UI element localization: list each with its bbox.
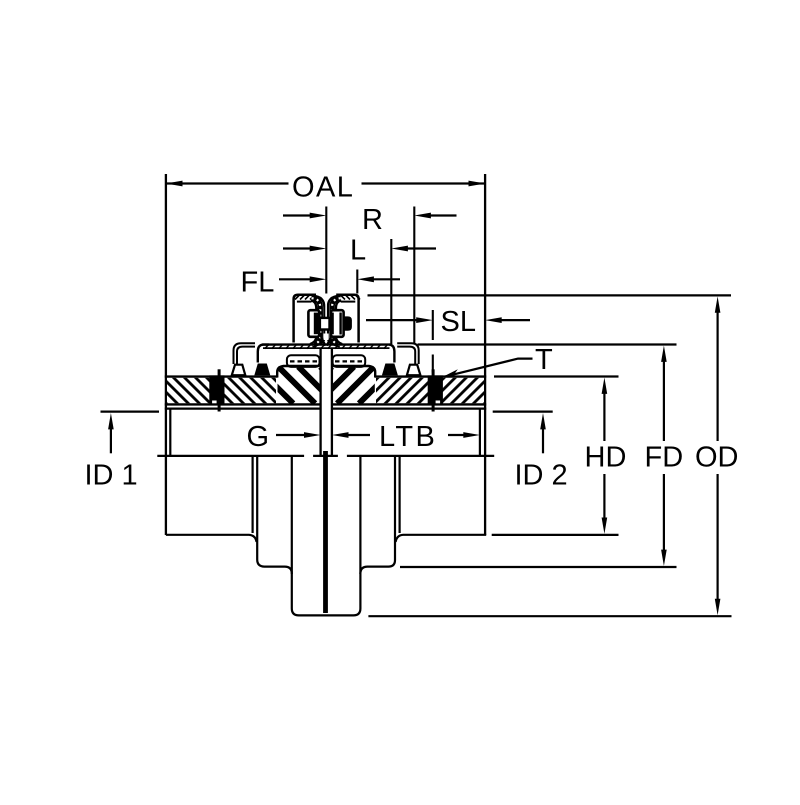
R right reference line bbox=[413, 207, 415, 345]
center gap sliver bbox=[325, 296, 327, 345]
hub flange bottom line bbox=[165, 403, 486, 405]
hub barrel left wall inner bbox=[169, 409, 171, 456]
dimension LTB bbox=[332, 421, 480, 453]
leader T bbox=[442, 344, 553, 377]
svg-text:R: R bbox=[362, 204, 383, 236]
cover right edge foot (black) bbox=[382, 364, 398, 376]
OD top extension line bbox=[368, 294, 732, 296]
cover bottom band bbox=[258, 345, 395, 363]
cover left edge foot (black) bbox=[254, 364, 270, 376]
svg-text:G: G bbox=[247, 421, 270, 453]
dimension SL bbox=[366, 306, 530, 338]
SL left reference line bbox=[432, 310, 434, 373]
svg-text:ID 1: ID 1 bbox=[85, 460, 138, 492]
ID 1 arrow bbox=[85, 413, 138, 492]
dimension OAL bbox=[166, 172, 485, 204]
FD top extension line bbox=[418, 343, 677, 345]
svg-text:OAL: OAL bbox=[292, 172, 354, 204]
hub tooth hatch right bbox=[295, 367, 396, 404]
shaft gap line left bbox=[319, 349, 321, 456]
svg-text:OD: OD bbox=[695, 442, 739, 474]
cover right seal hook (white foot) bbox=[397, 343, 420, 375]
ID 1 reference line bbox=[101, 411, 160, 413]
seal right bbox=[428, 369, 443, 411]
dimension OD bbox=[695, 296, 739, 615]
hub flange raised top right bbox=[333, 366, 375, 378]
OD bottom extension line bbox=[368, 615, 731, 617]
svg-text:LTB: LTB bbox=[379, 421, 437, 453]
right hub step profile bbox=[360, 456, 395, 574]
hub flange top line right bbox=[375, 375, 486, 377]
dimension R bbox=[283, 204, 457, 236]
L right reference line bbox=[390, 239, 392, 344]
hub barrel top line bbox=[165, 408, 486, 410]
hub flange hatch left outer bbox=[167, 378, 276, 404]
FL right reference line bbox=[356, 270, 358, 294]
ID 2 arrow bbox=[515, 413, 568, 492]
grid spring right tube bbox=[328, 296, 342, 346]
dimension FL bbox=[241, 267, 401, 299]
dimension L bbox=[283, 235, 436, 267]
hub barrel right wall inner bbox=[479, 409, 481, 456]
svg-text:ID 2: ID 2 bbox=[515, 460, 568, 492]
bolt shank block bbox=[320, 318, 330, 330]
svg-text:FL: FL bbox=[241, 267, 275, 299]
bolt head bbox=[308, 310, 319, 337]
shaft gap line right bbox=[331, 349, 333, 456]
bolt tip bbox=[344, 316, 352, 330]
left hub step outer edge bbox=[252, 456, 254, 533]
grid element hidden box left bbox=[287, 355, 320, 367]
cover left seal hook (white foot) bbox=[232, 343, 255, 375]
shaft butt joint bbox=[323, 451, 328, 613]
svg-text:HD: HD bbox=[585, 442, 627, 474]
HD bottom extension line bbox=[492, 534, 619, 536]
grid element hidden box right bbox=[333, 355, 366, 367]
HD top extension line bbox=[494, 375, 619, 377]
hub tooth hatch left bbox=[256, 367, 357, 404]
FD bottom extension line bbox=[400, 566, 677, 568]
dimension HD bbox=[585, 378, 627, 534]
nut bbox=[331, 310, 344, 337]
grid spring tube hatch flecks bbox=[312, 298, 321, 345]
dimension G bbox=[247, 421, 321, 453]
cover top band left plate bbox=[294, 295, 316, 343]
left shaft bbox=[292, 456, 361, 615]
hub flange top line left bbox=[165, 375, 278, 377]
right hub step outer edge bbox=[399, 456, 401, 533]
grid spring center gap pocket bbox=[324, 334, 329, 341]
dimension OAL right extension line bbox=[484, 174, 486, 535]
ID 2 reference line bbox=[493, 411, 553, 413]
left hub step profile bbox=[257, 456, 292, 574]
center reference line bbox=[325, 207, 327, 294]
svg-text:SL: SL bbox=[441, 306, 476, 338]
hub flange hatch right outer bbox=[376, 378, 484, 404]
svg-text:FD: FD bbox=[645, 442, 684, 474]
right hub block bottom bbox=[396, 535, 487, 542]
seal left bbox=[209, 369, 224, 411]
left hub block bottom bbox=[166, 535, 257, 542]
grid spring left tube bbox=[310, 296, 324, 346]
hub bottom line bbox=[157, 455, 494, 457]
svg-text:T: T bbox=[535, 344, 553, 376]
svg-text:L: L bbox=[350, 235, 366, 267]
dimension OAL left extension line bbox=[165, 174, 167, 535]
cover top band right plate bbox=[336, 295, 360, 343]
dimension FD bbox=[645, 346, 684, 567]
hub flange raised top left bbox=[277, 366, 319, 378]
